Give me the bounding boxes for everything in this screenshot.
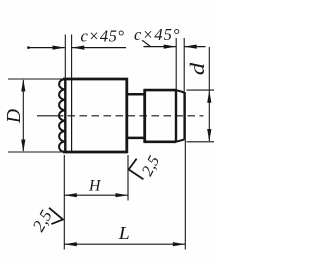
big cylinder right edge / step face [125,78,128,153]
right cylinder top edge [143,89,176,92]
d dimension extension line top [187,89,215,91]
svg-text:H: H [88,177,102,194]
chamfer c x45 left: extension line at chamfer [71,35,73,80]
label d [187,62,209,76]
D dimension extension line bottom [8,151,63,153]
svg-text:c×45°: c×45° [134,25,180,44]
roughness mark 2,5 at step [129,159,144,180]
d dimension line [207,47,211,142]
knurl scallops on left edge [59,79,65,152]
svg-text:d: d [187,62,209,76]
svg-text:c×45°: c×45° [81,27,125,46]
bottom-right chamfer diagonal [176,139,184,141]
H dimension right extension line [127,155,129,201]
top-right chamfer diagonal [176,90,184,92]
big cylinder top edge [63,78,127,81]
D dimension extension line top [8,78,63,80]
left chamfer line of big cylinder [71,79,73,152]
label c x45 right [134,25,180,44]
big cylinder bottom edge [63,151,127,154]
roughness mark 2,5 at left face [49,208,63,224]
chamfer c x45 right: extension line at chamfer [175,38,177,90]
right cylinder left edge [143,90,146,142]
roughness value 2,5 at step [139,153,163,179]
right extension line for L [184,144,186,250]
label H [88,177,102,194]
neck top edge [127,93,145,96]
label c x45 left [81,27,125,46]
right cylinder end face edge [183,92,185,140]
chamfer c x45 right: leader from text [142,40,150,46]
left extension line for H and L [63,155,65,250]
D dimension line [21,79,25,152]
label D [4,109,25,124]
label L [118,223,130,243]
chamfer c x45 right: extension line at end face [184,38,185,144]
centerline [37,115,204,117]
L dimension line [64,242,185,246]
chamfer c x45 left: dimension arrows [27,46,126,50]
right cylinder bottom edge [143,141,176,144]
H dimension line [64,193,128,197]
neck bottom edge [127,137,145,140]
svg-text:D: D [4,109,25,124]
chamfer c x45 right: dimension arrows [144,45,206,49]
roughness value 2,5 at left face [29,207,56,235]
chamfer c x45 left: extension line at part left edge [64,35,66,80]
svg-text:L: L [118,223,130,243]
right cylinder chamfer line [175,90,177,142]
d dimension extension line bottom [187,141,215,143]
big cylinder left edge [64,79,66,152]
